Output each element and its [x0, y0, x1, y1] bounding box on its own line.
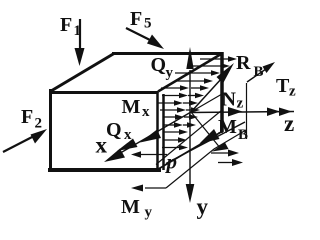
cut face bottom oblique edge: [158, 132, 223, 170]
box top back edge: [112, 52, 223, 55]
stress arrow row 13: [162, 145, 188, 151]
stress left arrow: [131, 151, 167, 158]
svg-text:z: z: [284, 111, 294, 136]
force F5 arrow: [126, 28, 164, 49]
svg-text:5: 5: [144, 16, 152, 32]
svg-text:F: F: [21, 106, 33, 128]
svg-text:x: x: [96, 133, 108, 158]
stress arrow row 12: [163, 137, 187, 143]
svg-text:T: T: [276, 75, 290, 97]
svg-text:N: N: [222, 89, 237, 111]
normal force Nz arrowhead: [228, 107, 243, 117]
lower right small arrow 1: [211, 150, 239, 157]
support B vertical line: [246, 83, 248, 139]
stress arrow row 9: [163, 114, 198, 120]
box front face left edge: [49, 89, 52, 170]
diagonal from centroid to lower right: [191, 112, 221, 149]
z axis line: [191, 112, 294, 113]
box front face bottom edge: [48, 168, 161, 172]
box front face right edge: [156, 92, 159, 170]
stress arrow row 11: [163, 129, 188, 135]
svg-text:y: y: [166, 65, 174, 81]
svg-text:R: R: [236, 52, 251, 74]
svg-text:B: B: [254, 64, 264, 80]
stress arrow row 5: [161, 85, 209, 91]
svg-text:F: F: [130, 8, 142, 30]
svg-text:2: 2: [35, 116, 43, 132]
Tz inclined arrow: [247, 62, 275, 82]
svg-text:F: F: [60, 14, 72, 36]
vertical centroid line (Qy shaft + y axis): [189, 70, 191, 188]
x axis arrowhead: [104, 149, 125, 163]
svg-text:y: y: [197, 194, 209, 219]
force F2 arrow: [3, 129, 47, 152]
svg-text:x: x: [142, 104, 150, 120]
x axis back continuation: [191, 94, 222, 112]
lower right small arrow 2: [218, 159, 243, 166]
svg-text:Q: Q: [151, 54, 167, 76]
y axis arrowhead: [186, 184, 195, 203]
stress arrow row 10: [163, 122, 196, 128]
My oblique arrowhead: [212, 143, 229, 152]
My horizontal arrow: [131, 185, 166, 192]
box front face top edge: [49, 91, 158, 94]
reaction RB arrow: [191, 63, 234, 112]
svg-text:M: M: [122, 96, 141, 118]
stress arrow row 2: [192, 63, 230, 69]
stress arrow row 8: [160, 107, 200, 113]
stress arrow row 6: [162, 93, 204, 99]
svg-text:M: M: [218, 116, 237, 138]
svg-text:y: y: [145, 205, 153, 221]
torque Tz double arrowhead: [267, 108, 280, 117]
cut face back edge: [220, 52, 224, 132]
stress arrow row 3: [175, 70, 220, 76]
cut face top oblique edge: [158, 54, 222, 92]
svg-text:x: x: [124, 127, 132, 143]
p leader line: [156, 110, 222, 165]
svg-text:Q: Q: [106, 119, 122, 141]
force F1 arrow: [75, 19, 85, 66]
x axis / Qx diagonal shaft: [110, 112, 191, 159]
svg-text:z: z: [289, 84, 296, 100]
stress arrow row 4: [176, 78, 213, 84]
box top face left oblique edge: [51, 54, 114, 92]
svg-text:z: z: [237, 96, 244, 112]
stress arrow row 7: [158, 100, 198, 106]
svg-text:M: M: [121, 196, 140, 218]
svg-text:1: 1: [74, 23, 82, 39]
shear force Qy arrowhead: [186, 47, 193, 69]
moment Mx arrowhead: [117, 139, 138, 152]
svg-text:B: B: [238, 127, 248, 143]
cut face front line: [162, 94, 165, 170]
shear force Qx arrowhead: [140, 130, 161, 143]
My oblique line: [166, 130, 246, 188]
stress arrow row 1: [200, 56, 237, 62]
svg-text:p: p: [165, 150, 178, 174]
moment MB arrow: [166, 122, 245, 164]
